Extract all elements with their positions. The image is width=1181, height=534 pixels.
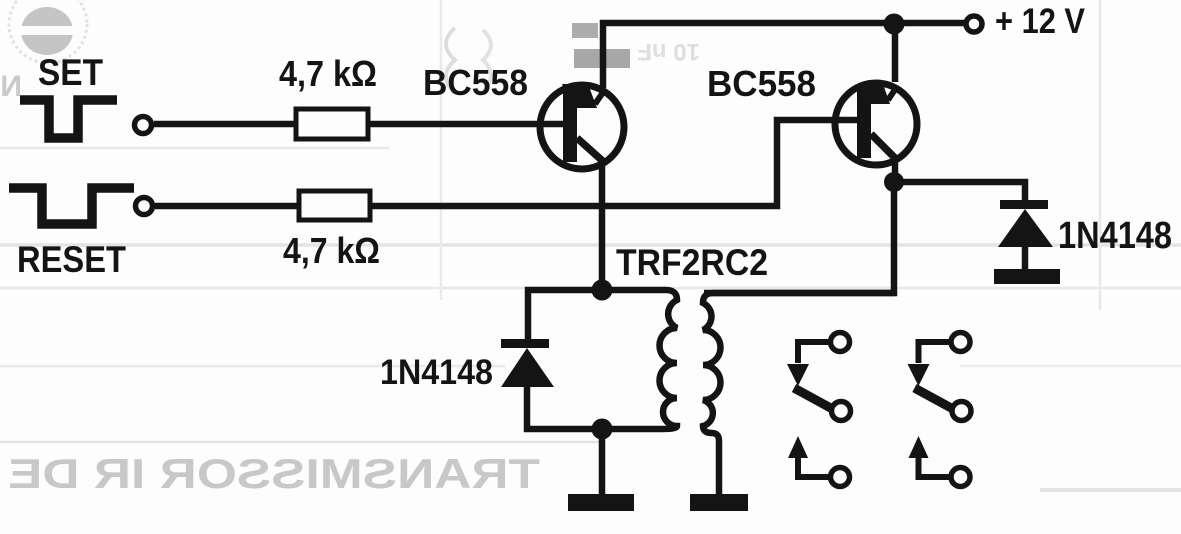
- svg-text:N: N: [0, 70, 22, 103]
- svg-text:TRF2RC2: TRF2RC2: [616, 242, 768, 283]
- svg-text:BC558: BC558: [707, 63, 816, 104]
- svg-text:+ 12 V: + 12 V: [995, 2, 1086, 41]
- svg-text:BC558: BC558: [423, 62, 528, 103]
- svg-text:4,7 kΩ: 4,7 kΩ: [279, 53, 377, 94]
- svg-text:SET: SET: [38, 52, 103, 93]
- svg-text:1N4148: 1N4148: [380, 353, 493, 392]
- svg-text:4,7 kΩ: 4,7 kΩ: [283, 230, 380, 271]
- svg-text:TRANSMISSOR IR DE: TRANSMISSOR IR DE: [8, 450, 540, 497]
- svg-text:RESET: RESET: [17, 239, 126, 280]
- svg-text:10 nF: 10 nF: [637, 38, 700, 65]
- svg-text:1N4148: 1N4148: [1058, 215, 1172, 257]
